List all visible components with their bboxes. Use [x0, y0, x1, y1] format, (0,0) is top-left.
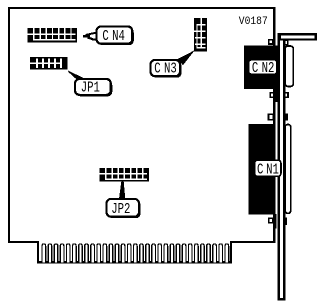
connector CN1 body	[248, 124, 275, 215]
svg-text:V0187: V0187	[239, 16, 268, 29]
callout CN4: tail	[83, 33, 102, 45]
svg-text:JP2: JP2	[111, 200, 130, 217]
bracket right line	[283, 40, 285, 301]
card edge stub below CN1	[273, 214, 276, 228]
screw CN1 top-right	[284, 114, 288, 121]
header JP1	[30, 57, 67, 70]
screw CN2 bottom-left	[270, 93, 274, 98]
label CN2	[249, 60, 277, 77]
card edge stub below CN2	[273, 89, 280, 102]
callout CN3: tail	[178, 50, 195, 65]
screw CN2 bottom-right	[285, 93, 288, 98]
connector CN1 DB25 shell outline	[285, 125, 291, 214]
label CN1	[255, 160, 282, 178]
header JP2	[100, 168, 149, 181]
svg-text:JP1: JP1	[81, 79, 100, 96]
screw CN1 bottom-right	[284, 218, 287, 225]
bracket left line	[278, 33, 280, 301]
header CN3	[194, 18, 207, 51]
card outline	[9, 8, 274, 262]
connector CN2 DB9 shell outline	[285, 46, 293, 86]
header CN4	[28, 28, 77, 42]
bracket bottom cap	[278, 298, 286, 301]
svg-text:CN1: CN1	[257, 161, 279, 178]
svg-text:CN3: CN3	[154, 60, 176, 77]
connector CN2 body	[244, 46, 279, 89]
bracket top flange	[280, 34, 316, 39]
svg-text:CN4: CN4	[102, 27, 125, 44]
callout CN3: box	[151, 60, 182, 78]
svg-text:CN2: CN2	[252, 60, 274, 77]
callout JP1: box	[75, 79, 112, 97]
screw CN1 top-left	[269, 114, 274, 120]
screw CN2 top-right	[285, 40, 288, 45]
callout JP2: tail	[119, 182, 125, 199]
screw CN2 top-left	[269, 40, 273, 44]
edge connector fingers	[42, 244, 229, 263]
callout JP2: box	[107, 199, 141, 218]
screw CN1 bottom-left	[269, 218, 273, 223]
callout CN4: box	[97, 27, 134, 46]
callout JP1: tail	[68, 71, 85, 81]
